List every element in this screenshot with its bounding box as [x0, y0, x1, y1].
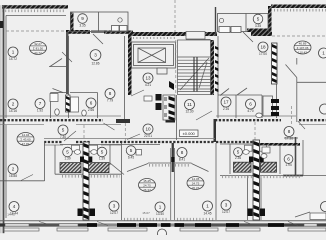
svg-text:44.72: 44.72	[34, 51, 42, 55]
svg-text:14.04: 14.04	[22, 133, 30, 137]
svg-text:8: 8	[288, 129, 291, 134]
svg-text:11: 11	[187, 102, 192, 107]
svg-text:7.79: 7.79	[107, 99, 113, 103]
svg-text:2: 2	[12, 102, 15, 107]
svg-text:14.72: 14.72	[9, 57, 17, 61]
svg-text:24.75: 24.75	[143, 184, 151, 188]
svg-text:1: 1	[322, 51, 325, 56]
svg-text:3.35: 3.35	[79, 24, 85, 28]
svg-text:6.45: 6.45	[128, 155, 134, 159]
svg-text:1: 1	[206, 204, 209, 209]
svg-text:17: 17	[223, 100, 229, 105]
svg-text:17.36: 17.36	[285, 137, 293, 141]
svg-text:26.37: 26.37	[192, 186, 200, 190]
svg-text:7.30: 7.30	[60, 135, 66, 139]
svg-text:8: 8	[181, 150, 184, 155]
svg-text:±0.000: ±0.000	[183, 131, 196, 136]
svg-text:14.45: 14.45	[192, 177, 200, 181]
svg-text:32.27: 32.27	[34, 42, 42, 46]
svg-text:1: 1	[12, 50, 15, 55]
svg-text:1.39: 1.39	[99, 157, 105, 161]
svg-text:18: 18	[260, 45, 266, 50]
svg-text:2: 2	[12, 167, 15, 172]
svg-text:5: 5	[237, 150, 240, 155]
svg-text:5: 5	[101, 150, 104, 155]
svg-text:40.89: 40.89	[299, 42, 307, 46]
svg-text:47.99: 47.99	[22, 142, 30, 146]
svg-text:17.00: 17.00	[259, 52, 267, 56]
svg-text:5: 5	[130, 148, 133, 153]
svg-text:7: 7	[39, 101, 42, 106]
svg-text:12.86: 12.86	[92, 62, 100, 66]
svg-text:10: 10	[145, 127, 151, 132]
svg-text:3: 3	[113, 204, 116, 209]
svg-text:12.30: 12.30	[186, 110, 194, 114]
svg-text:3.35: 3.35	[255, 24, 261, 28]
svg-text:2.16: 2.16	[223, 107, 229, 111]
svg-text:4.70: 4.70	[247, 109, 253, 113]
svg-text:13: 13	[145, 76, 151, 81]
svg-text:110.43: 110.43	[298, 51, 307, 55]
svg-text:26.37: 26.37	[143, 188, 151, 192]
svg-text:Σ 43.60: Σ 43.60	[20, 138, 31, 142]
svg-text:14.45: 14.45	[204, 211, 212, 215]
svg-text:6: 6	[90, 101, 93, 106]
svg-text:2.36: 2.36	[235, 156, 241, 160]
svg-text:13.40: 13.40	[156, 212, 164, 216]
svg-text:8.41: 8.41	[179, 158, 185, 162]
svg-text:6: 6	[287, 157, 290, 162]
svg-text:16.88: 16.88	[9, 174, 17, 178]
svg-text:5: 5	[66, 150, 69, 155]
svg-text:1.94: 1.94	[285, 163, 291, 167]
svg-text:6: 6	[249, 102, 252, 107]
svg-text:1.39: 1.39	[64, 157, 70, 161]
svg-text:1: 1	[159, 205, 162, 210]
svg-text:3: 3	[94, 53, 97, 58]
svg-text:14.16: 14.16	[9, 109, 17, 113]
svg-text:15.45: 15.45	[143, 179, 151, 183]
svg-text:5: 5	[62, 128, 65, 133]
svg-text:22.01: 22.01	[144, 134, 152, 138]
svg-text:Σ 107.06: Σ 107.06	[297, 46, 309, 50]
svg-text:1.92: 1.92	[37, 109, 43, 113]
svg-text:2.66: 2.66	[88, 108, 94, 112]
svg-text:12.07: 12.07	[222, 210, 230, 214]
svg-text:14.45: 14.45	[7, 213, 15, 217]
svg-text:3: 3	[225, 203, 228, 208]
svg-text:15.07: 15.07	[142, 211, 150, 215]
svg-text:4.21: 4.21	[145, 83, 151, 87]
svg-text:24.75: 24.75	[192, 182, 200, 186]
svg-text:9: 9	[81, 16, 84, 21]
svg-text:Σ 81.50: Σ 81.50	[33, 47, 44, 51]
svg-text:12.07: 12.07	[110, 211, 118, 215]
svg-text:4: 4	[13, 204, 16, 209]
svg-text:8: 8	[109, 91, 112, 96]
svg-text:5: 5	[257, 17, 260, 22]
